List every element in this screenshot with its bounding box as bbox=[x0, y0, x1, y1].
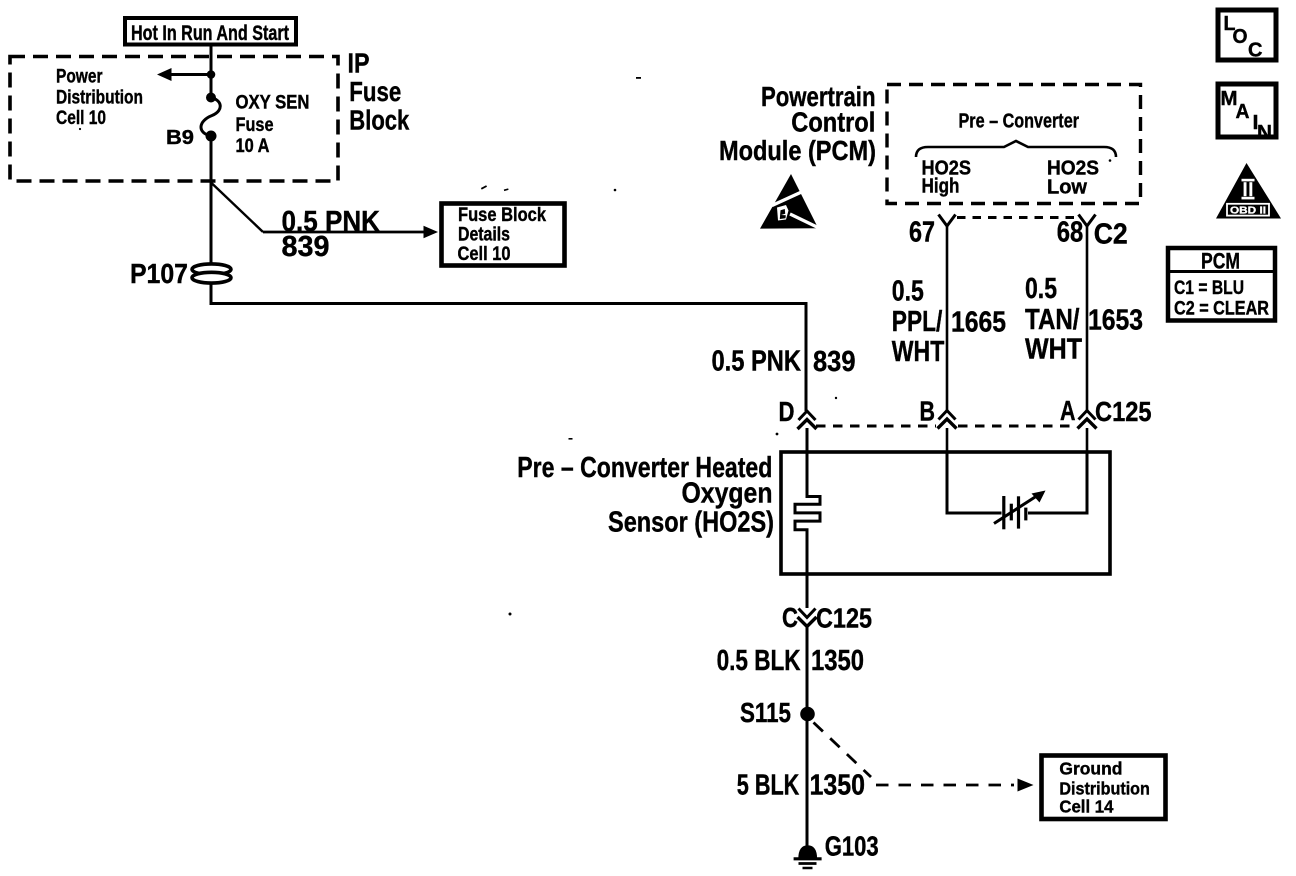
wire from fuse down to P107 bbox=[210, 136, 213, 265]
svg-text:10 A: 10 A bbox=[236, 135, 270, 157]
svg-text:D: D bbox=[779, 396, 795, 427]
svg-text:1665: 1665 bbox=[951, 307, 1006, 339]
svg-text:Cell 10: Cell 10 bbox=[56, 107, 106, 129]
svg-text:PCM: PCM bbox=[1201, 249, 1240, 274]
label OXY SEN Fuse 10 A bbox=[236, 92, 310, 158]
wire from Hot In Run down to junction bbox=[210, 45, 213, 97]
svg-text:Low: Low bbox=[1047, 177, 1087, 199]
svg-text:S115: S115 bbox=[740, 697, 791, 728]
svg-text:Fuse: Fuse bbox=[236, 114, 274, 136]
svg-text:C125: C125 bbox=[816, 602, 872, 633]
label 0.5 BLK 1350 bbox=[717, 645, 864, 677]
svg-text:Distribution: Distribution bbox=[56, 86, 143, 108]
grommet P107 bbox=[192, 264, 231, 283]
svg-text:Power: Power bbox=[56, 66, 103, 88]
wire S115 to G103 bbox=[806, 714, 809, 849]
connector C125 dashed line bbox=[816, 425, 1076, 428]
connector C125 pin C chevrons (down) bbox=[798, 609, 817, 627]
connector C2 pin 68 Y symbol bbox=[1079, 215, 1096, 227]
connector C125 pin B chevrons bbox=[938, 411, 957, 429]
svg-text:PPL/: PPL/ bbox=[892, 306, 943, 338]
label 0.5 TAN/WHT bbox=[1025, 273, 1082, 366]
wire pin 68 down to A bbox=[1086, 226, 1089, 411]
svg-text:839: 839 bbox=[282, 231, 330, 263]
svg-text:0.5: 0.5 bbox=[892, 276, 924, 308]
wire C connector to S115 bbox=[806, 627, 809, 707]
svg-text:C125: C125 bbox=[1095, 396, 1152, 427]
PCM Pre-Converter dashed box bbox=[887, 85, 1141, 204]
svg-text:WHT: WHT bbox=[892, 336, 945, 368]
svg-text:N: N bbox=[1257, 122, 1272, 144]
svg-text:O: O bbox=[1233, 26, 1248, 48]
svg-text:Oxygen: Oxygen bbox=[682, 478, 773, 510]
svg-text:Control: Control bbox=[791, 106, 875, 137]
connector C125 pin D chevrons bbox=[798, 411, 817, 429]
svg-text:A: A bbox=[1060, 395, 1076, 426]
splice S115 dot bbox=[800, 707, 815, 722]
node junction dot bbox=[207, 70, 216, 79]
svg-text:WHT: WHT bbox=[1025, 334, 1082, 366]
ESD sensitive device triangle symbol bbox=[760, 174, 819, 229]
variable oxygen sensor cell symbol bbox=[994, 491, 1046, 530]
svg-text:C1 = BLU: C1 = BLU bbox=[1174, 277, 1244, 299]
wire branch diagonal to fuse block details arrow bbox=[212, 183, 264, 232]
svg-text:B: B bbox=[920, 396, 936, 427]
svg-text:P107: P107 bbox=[130, 258, 188, 289]
Power Distribution Cell 10 label bbox=[56, 66, 143, 130]
svg-text:C: C bbox=[1248, 40, 1263, 62]
LOC badge box bbox=[1218, 10, 1276, 62]
label 0.5 PNK 839 (branch) bbox=[282, 206, 381, 263]
label Powertrain Control Module (PCM) bbox=[719, 81, 876, 166]
svg-text:Cell 14: Cell 14 bbox=[1059, 797, 1113, 817]
ground G103 symbol bbox=[794, 845, 822, 868]
svg-text:1653: 1653 bbox=[1088, 305, 1143, 337]
svg-text:Cell 10: Cell 10 bbox=[458, 243, 511, 265]
svg-text:G103: G103 bbox=[825, 831, 879, 862]
Hot In Run And Start label box bbox=[125, 18, 296, 45]
Ground Distribution Cell 14 box bbox=[1042, 756, 1166, 820]
fuse OXY SEN B9 symbol bbox=[201, 93, 220, 142]
svg-text:0.5 BLK: 0.5 BLK bbox=[717, 645, 801, 677]
svg-text:Hot In Run And Start: Hot In Run And Start bbox=[131, 22, 289, 45]
wire D chevron to sensor box bbox=[806, 428, 809, 452]
brace over HO2S High / Low bbox=[916, 141, 1116, 157]
svg-text:0.5: 0.5 bbox=[1025, 273, 1057, 305]
svg-text:1350: 1350 bbox=[811, 645, 864, 677]
wire from P107 down then right then down to D bbox=[211, 283, 806, 411]
svg-text:67: 67 bbox=[909, 217, 935, 249]
svg-text:C: C bbox=[782, 602, 798, 633]
svg-text:OBD II: OBD II bbox=[1230, 205, 1266, 216]
svg-text:68: 68 bbox=[1057, 217, 1084, 249]
wire pin 67 down to B bbox=[946, 226, 949, 411]
svg-text:TAN/: TAN/ bbox=[1025, 304, 1080, 336]
HO2S sensor box bbox=[781, 452, 1110, 574]
label 0.5 PNK 839 (main run) bbox=[712, 346, 856, 379]
IP fuse block dashed box bbox=[10, 57, 338, 182]
svg-text:Ground: Ground bbox=[1059, 759, 1122, 779]
svg-text:0.5 PNK: 0.5 PNK bbox=[712, 346, 802, 378]
svg-text:Distribution: Distribution bbox=[1059, 778, 1150, 798]
IP Fuse Block label bbox=[348, 47, 410, 135]
svg-text:Block: Block bbox=[349, 105, 409, 136]
svg-text:B9: B9 bbox=[166, 127, 194, 149]
OBD II triangle badge bbox=[1216, 163, 1281, 219]
label HO2S Low bbox=[1047, 158, 1099, 199]
label 0.5 PPL/WHT bbox=[892, 276, 945, 369]
label HO2S High bbox=[922, 158, 972, 198]
connector C2 pin 67 Y symbol bbox=[939, 215, 956, 227]
Fuse Block Details Cell 10 box bbox=[442, 204, 565, 266]
svg-text:C2: C2 bbox=[1094, 219, 1128, 251]
connector C2 dashed line bbox=[957, 216, 1078, 219]
dashed wire S115 to ground distribution bbox=[814, 723, 1034, 792]
svg-text:Module (PCM): Module (PCM) bbox=[719, 135, 876, 166]
svg-text:Pre – Converter: Pre – Converter bbox=[959, 111, 1080, 133]
heater element bbox=[795, 452, 820, 574]
wire A chevron to sensor box bbox=[1086, 428, 1089, 452]
svg-text:1350: 1350 bbox=[810, 770, 866, 802]
wire B chevron to sensor box bbox=[946, 428, 949, 452]
svg-text:839: 839 bbox=[813, 346, 856, 378]
label Pre-Converter Heated Oxygen Sensor (HO2S) bbox=[517, 452, 774, 539]
PCM connector legend box bbox=[1168, 248, 1275, 321]
svg-text:IP: IP bbox=[348, 47, 370, 78]
wire A inside box bbox=[1028, 452, 1087, 513]
svg-text:5 BLK: 5 BLK bbox=[737, 770, 800, 802]
svg-text:OXY SEN: OXY SEN bbox=[236, 92, 310, 114]
svg-text:Sensor (HO2S): Sensor (HO2S) bbox=[608, 507, 774, 539]
svg-text:A: A bbox=[1236, 101, 1250, 123]
svg-text:High: High bbox=[922, 176, 960, 198]
wire sensor box down to C connector bbox=[806, 574, 809, 608]
svg-text:Fuse: Fuse bbox=[349, 76, 401, 107]
MAIN badge box bbox=[1218, 84, 1276, 144]
label 5 BLK 1350 bbox=[737, 770, 865, 802]
wire arrow to Power Distribution bbox=[165, 73, 211, 76]
connector C125 pin A chevrons bbox=[1078, 411, 1097, 429]
svg-text:C2 = CLEAR: C2 = CLEAR bbox=[1174, 298, 1269, 320]
wire B inside box bbox=[947, 452, 1002, 513]
